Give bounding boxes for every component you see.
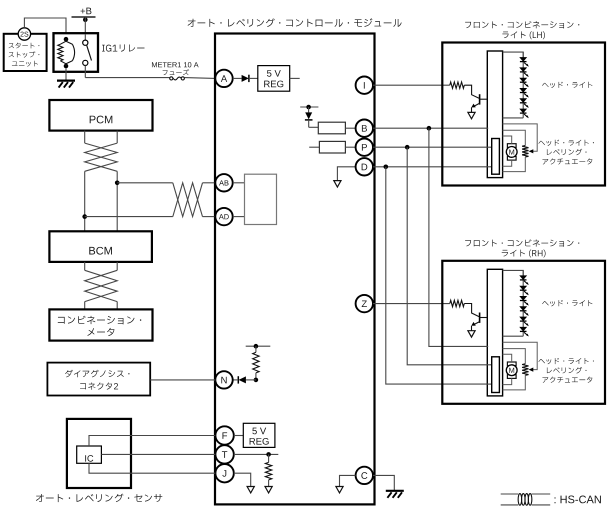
combination meter box xyxy=(49,309,152,340)
wire node D to signal ground xyxy=(337,167,355,181)
resistor R6 RH xyxy=(450,300,465,306)
wire relay to fuse xyxy=(85,77,169,79)
resistor R4 box xyxy=(318,122,345,134)
wire D feed stub RH xyxy=(487,383,492,385)
relay coil K1 xyxy=(58,37,75,68)
diagnosis connector 2 box xyxy=(47,363,150,396)
light RH title xyxy=(465,239,579,246)
front combination light RH box xyxy=(442,261,605,404)
junction dot B xyxy=(427,126,432,131)
PCM box xyxy=(49,100,152,131)
module box auto-leveling control module xyxy=(215,34,375,505)
junction dot CAN-H xyxy=(115,181,120,186)
wire fuse to node A xyxy=(184,77,215,80)
node J xyxy=(215,464,233,482)
wire CAN-L to twist xyxy=(85,216,173,218)
twisted pair TP1 xyxy=(85,143,118,171)
wire D to LH actuator xyxy=(373,166,492,168)
wire I to LH resistor xyxy=(373,84,450,86)
wire B feed stub LH xyxy=(487,127,489,129)
diode D2 xyxy=(305,107,318,127)
wire B feed stub RH xyxy=(487,345,489,347)
twisted pair TP3 xyxy=(85,270,118,301)
node A xyxy=(215,70,232,87)
relay switch S1 xyxy=(83,34,92,78)
wire AD to connector xyxy=(233,216,245,218)
junction dot +B xyxy=(83,17,88,22)
wire T internal xyxy=(234,453,278,455)
potentiometer R7 RH xyxy=(503,349,529,390)
wire IC to J xyxy=(89,463,215,473)
+B terminal bar xyxy=(72,16,96,18)
LED RH4 xyxy=(520,307,529,316)
node I xyxy=(356,77,373,94)
LED RH2 xyxy=(520,286,529,295)
actuator label LH xyxy=(538,140,593,146)
wire twist to AD xyxy=(203,216,216,218)
wire vertical P to RH xyxy=(407,147,491,365)
wire vertical D to RH xyxy=(386,167,492,384)
wire +B to relay switch xyxy=(84,17,86,34)
wire CAN-L vertical xyxy=(84,171,86,231)
wire J internal xyxy=(234,473,251,486)
start-stop unit label xyxy=(9,43,40,49)
BCM box xyxy=(49,231,151,262)
relay label IG1 xyxy=(102,44,144,51)
wire Z to RH resistor xyxy=(373,303,450,305)
wire diagnosis to node N xyxy=(150,379,215,381)
junction dot R2 top xyxy=(254,344,259,349)
node F xyxy=(215,426,233,444)
transistor Q1 xyxy=(464,85,487,112)
diode D3 xyxy=(233,376,256,383)
fuse label katakana xyxy=(163,69,190,75)
actuator label RH xyxy=(538,358,593,364)
fuse label METER1 10 A xyxy=(152,62,199,67)
wire U1 output xyxy=(290,77,300,79)
node D xyxy=(356,158,373,175)
transistor Q2 xyxy=(464,304,487,331)
wire IC to T xyxy=(101,453,215,455)
connector block CN1 xyxy=(245,174,277,224)
wire PCM left lead xyxy=(84,131,86,144)
wire R4 to node B xyxy=(345,127,355,129)
wire C to chassis ground xyxy=(373,475,394,490)
LED LH1 xyxy=(520,58,529,67)
signal ground triangle C xyxy=(336,487,343,493)
fuse METER1 10A xyxy=(170,77,185,80)
signal ground triangle Q2 xyxy=(468,331,475,337)
node AB xyxy=(215,174,232,191)
junction dot rail xyxy=(306,105,311,110)
module title xyxy=(188,18,402,27)
LED LH6 xyxy=(520,109,529,118)
diode D1 xyxy=(233,75,258,82)
junction dot D xyxy=(384,165,389,170)
resistor R3 xyxy=(265,454,271,486)
resistor R2 xyxy=(253,346,259,380)
LED chain bottom wire LH xyxy=(503,117,524,119)
signal ground triangle Q1 xyxy=(468,112,475,118)
wire vertical B to RH xyxy=(429,128,488,346)
wiper arrow LH xyxy=(503,124,538,153)
regulator U2 5V REG xyxy=(243,423,275,447)
resistor R6 LH xyxy=(450,82,465,88)
wire TP3 to meter left xyxy=(84,302,86,310)
wire B to LH connector xyxy=(373,127,488,129)
LED LH5 xyxy=(520,99,529,108)
auto leveling sensor box xyxy=(67,419,131,488)
connector tall rect RH xyxy=(487,269,502,396)
wiper arrow RH xyxy=(503,342,538,372)
signal ground triangle J xyxy=(247,487,254,493)
wire motor top M1 xyxy=(503,136,512,144)
headlight label LH xyxy=(542,82,592,88)
junction dot T xyxy=(266,452,271,457)
wire AB to connector xyxy=(233,182,245,184)
signal ground triangle internal D xyxy=(334,181,341,187)
LED LH3 xyxy=(520,78,529,87)
HS-CAN label xyxy=(555,496,601,504)
inner connector rect RH xyxy=(492,357,500,393)
wire BCM right lead xyxy=(116,262,118,270)
auto leveling sensor label xyxy=(36,494,162,503)
LED RH1 xyxy=(520,276,529,285)
wire motor bottom M1 xyxy=(503,160,512,166)
ground G1 chassis xyxy=(57,81,75,88)
wire twist to AB xyxy=(203,182,216,184)
node C xyxy=(356,467,373,484)
regulator U1 5V REG xyxy=(258,66,290,92)
junction dot P xyxy=(405,145,410,150)
connector tall rect LH xyxy=(487,51,502,178)
IC box xyxy=(77,446,102,463)
LED RH6 xyxy=(520,327,529,336)
ground G2 chassis xyxy=(386,491,404,498)
motor M1 xyxy=(506,144,517,160)
node Z xyxy=(356,295,373,312)
LED chain top wire LH xyxy=(503,52,524,57)
wire IC to F xyxy=(89,436,215,447)
resistor R5 box xyxy=(319,141,345,153)
rail stub above R2 xyxy=(246,345,271,347)
front combination light LH box xyxy=(442,43,605,186)
signal ground triangle R3 xyxy=(265,487,272,493)
LED LH4 xyxy=(520,88,529,97)
wire TP3 to meter right xyxy=(116,302,118,310)
relay IG1 box xyxy=(54,33,99,72)
node AD xyxy=(215,208,232,225)
potentiometer R7 LH xyxy=(503,130,529,171)
LED LH2 xyxy=(520,68,529,77)
internal rail stub xyxy=(300,106,318,108)
junction dot R2 bottom xyxy=(254,378,259,383)
inner connector rect LH xyxy=(492,139,500,175)
wire relay coil to ground xyxy=(65,68,67,80)
LED chain bottom wire RH xyxy=(503,335,524,337)
LED RH3 xyxy=(520,296,529,305)
LED chain top wire RH xyxy=(503,270,524,275)
wire P feed stub LH xyxy=(487,146,492,148)
wire P feed stub RH xyxy=(487,364,492,366)
wire P to LH actuator xyxy=(373,146,492,148)
wire C internal xyxy=(340,475,356,486)
wire 2S to relay coil xyxy=(24,18,66,39)
wire D feed stub LH xyxy=(487,166,492,168)
start-stop unit box 2S xyxy=(4,34,47,71)
node P xyxy=(356,139,373,156)
node +B label xyxy=(81,8,92,15)
headlight label RH xyxy=(542,300,592,306)
wire motor top M2 xyxy=(503,354,512,362)
wire R5 to node P xyxy=(345,146,355,148)
node N xyxy=(215,371,232,388)
HS-CAN legend symbol xyxy=(501,494,551,506)
light LH title xyxy=(465,21,579,28)
node T xyxy=(215,445,233,463)
twisted pair TP2 xyxy=(173,183,203,217)
connector circle 2S xyxy=(18,28,30,40)
wire CAN-H vertical xyxy=(116,171,118,231)
wire CAN-H to twist xyxy=(117,182,173,184)
junction dot CAN-L xyxy=(82,214,87,219)
wire F to U2 xyxy=(234,435,244,437)
wire BCM left lead xyxy=(84,262,86,270)
node B xyxy=(356,120,373,137)
wire PCM right lead xyxy=(116,131,118,144)
wire motor bottom M2 xyxy=(503,378,512,384)
motor M2 xyxy=(506,362,517,378)
wire R5 left stub xyxy=(309,146,319,148)
LED RH5 xyxy=(520,317,529,326)
